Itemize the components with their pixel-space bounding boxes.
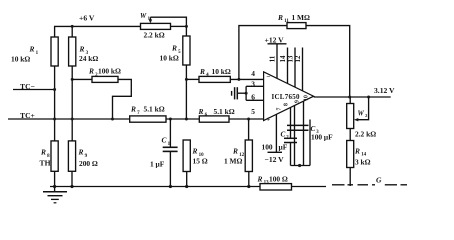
node R4 tap [185,78,188,81]
wire R12 to rail [248,172,250,187]
svg-text:100 μF: 100 μF [311,133,333,142]
wire W2 wiper [357,97,369,120]
svg-text:3: 3 [251,79,255,88]
wire R4 left lead [186,78,199,80]
svg-text:13: 13 [288,55,295,62]
pin 6 wire [246,99,264,101]
node rail-R3 junction [71,25,74,28]
wire feedback riser [239,26,350,97]
node R2 tap on R3 column [71,78,74,81]
wire cap common rail [291,165,311,167]
svg-text:9: 9 [295,100,301,103]
svg-text:5.1 kΩ: 5.1 kΩ [144,105,165,114]
svg-text:R: R [232,147,238,156]
svg-text:10 kΩ: 10 kΩ [11,55,30,64]
svg-text:C: C [281,131,286,139]
svg-text:R: R [130,105,136,114]
ground [54,187,56,192]
op-amp U1 ICL7650 [264,72,314,121]
resistor R12 [248,119,250,140]
resistor R5 [185,26,187,36]
resistor R6 [199,116,229,122]
node R10 / rail [185,185,188,188]
node TC+ / R1 column [53,118,56,121]
svg-text:R: R [277,13,283,22]
node R2 jog / TC+ bus [111,118,114,121]
node R12 / rail [247,185,250,188]
pin 4 [251,69,255,78]
svg-text:μF: μF [279,143,288,152]
label +12 V [265,35,285,44]
svg-text:14: 14 [280,55,287,62]
svg-text:1 μF: 1 μF [150,159,165,168]
node feedback / output [348,96,351,99]
resistor R2 [92,76,118,82]
pin 10 lead [303,101,305,165]
pin 3 wire [246,85,264,87]
svg-text:11: 11 [270,55,277,62]
capacitor C1 [169,119,171,147]
potentiometer W2 [349,97,351,104]
wire R10 to rail [186,172,188,187]
resistor R9 200 ohm [68,141,75,171]
pin 9 lead [294,106,296,166]
wire R4 to pin4 [230,78,263,80]
wire TH to ground rail [54,171,56,186]
node W1 / R5 junction [185,25,188,28]
svg-text:100: 100 [262,143,273,152]
svg-text:W: W [140,12,147,20]
pin 14 [287,48,289,84]
svg-text:TC+: TC+ [20,111,35,120]
svg-text:+: + [266,114,270,123]
pin 13 [294,48,296,88]
node TC+ / R3 column [71,118,74,121]
wire R6 to pin5 [229,118,264,120]
svg-text:TC−: TC− [20,82,35,91]
svg-text:R: R [257,174,263,183]
svg-text:15 Ω: 15 Ω [193,156,208,165]
svg-text:R: R [199,67,205,76]
svg-text:100 kΩ: 100 kΩ [98,67,121,76]
label -12 V [268,151,283,153]
wire W1 right lead [171,25,187,27]
pin 7 V- lead [275,114,277,152]
wire output [314,96,391,98]
svg-text:−12 V: −12 V [265,155,285,164]
capacitor C2 [290,108,292,139]
resistor R4 [199,76,230,82]
wire R7 to R6 [166,118,199,120]
node feedback / pin4 [237,78,240,81]
svg-text:5.1 kΩ: 5.1 kΩ [214,107,235,116]
svg-text:C: C [162,136,167,145]
svg-text:12: 12 [295,55,302,62]
svg-text:R: R [198,107,204,116]
svg-text:+12 V: +12 V [265,35,285,44]
wire R3 column down [71,66,73,141]
node W2 wiper / output [367,96,370,99]
node cap common [298,164,301,167]
resistor R1 [51,37,58,66]
svg-text:6: 6 [251,93,255,102]
wire +12V bar [268,43,287,45]
svg-text:ICL7650: ICL7650 [272,93,300,101]
wire top +6V rail [55,26,141,37]
svg-text:100 Ω: 100 Ω [269,174,288,183]
wire W1 wiper [150,17,186,26]
label 3.12 V [374,86,395,95]
wire pin3-pin6 tie [245,86,247,100]
pin 11 supply stub [276,44,278,79]
svg-text:R: R [354,146,360,155]
svg-text:1 MΩ: 1 MΩ [224,156,243,165]
svg-text:G: G [376,175,382,184]
node null cap tie [245,92,248,95]
resistor R3 [69,37,76,66]
node R12 tap pin5 [247,118,250,121]
resistor R10 [183,140,190,172]
thermistor R8 TH [51,141,58,171]
node R5 column / TC+ bus [185,118,188,121]
label +6 V [79,14,95,23]
capacitor null C [237,92,246,94]
wire R5 down to R4 node [185,65,187,119]
svg-text:TH: TH [40,158,51,167]
node TC- / R1 column [53,88,56,91]
node G terminal [376,175,382,184]
wire bottom rail right of R13 [292,186,327,188]
svg-text:2.2 kΩ: 2.2 kΩ [144,31,165,40]
svg-text:5: 5 [251,107,255,116]
capacitor C3 [287,124,309,126]
svg-text:R: R [78,148,84,157]
svg-text:1 MΩ: 1 MΩ [292,13,311,22]
svg-text:2.2 kΩ: 2.2 kΩ [355,129,376,138]
svg-text:10 kΩ: 10 kΩ [212,67,231,76]
wire TC- input [13,89,55,91]
node 200ohm / rail [70,185,73,188]
svg-text:24 kΩ: 24 kΩ [79,54,98,63]
wire R14 to rail [349,168,351,187]
svg-text:+6 V: +6 V [79,14,95,23]
node C1 / rail [169,185,172,188]
svg-text:4: 4 [251,69,255,78]
resistor R11 [287,23,306,29]
svg-text:W: W [358,109,365,117]
wire dashed ground return [332,184,345,186]
wire bottom rail left [50,186,260,188]
resistor R13 [260,184,292,190]
wire R2 jog to TC+ bus [113,79,132,119]
svg-text:10: 10 [303,95,309,101]
wire R3 column up to rail [71,26,73,37]
svg-text:R: R [192,147,198,156]
svg-text:R: R [88,67,94,76]
svg-text:R: R [40,148,46,157]
svg-text:R: R [29,45,35,54]
svg-text:10 kΩ: 10 kΩ [160,54,179,63]
svg-text:3 kΩ: 3 kΩ [355,157,371,166]
pin 5 [251,107,255,116]
potentiometer W1 [141,23,171,29]
wire 200 ohm to rail [71,171,73,186]
svg-text:−: − [266,72,270,81]
node TH / rail [53,185,56,188]
svg-text:7: 7 [276,107,282,110]
svg-text:3.12 V: 3.12 V [374,86,395,95]
pin 12 [302,48,304,91]
svg-text:R: R [79,45,85,54]
wire TC+ input bus [8,118,130,120]
svg-text:R: R [171,44,177,53]
svg-text:11: 11 [284,19,289,24]
resistor R7 [130,116,166,122]
node C1 tap [169,118,172,121]
wire R1 to TH column [54,66,56,141]
resistor R14 [349,129,351,141]
wire R2 left lead [72,78,92,80]
svg-text:8: 8 [283,103,289,106]
svg-text:200 Ω: 200 Ω [79,159,98,168]
